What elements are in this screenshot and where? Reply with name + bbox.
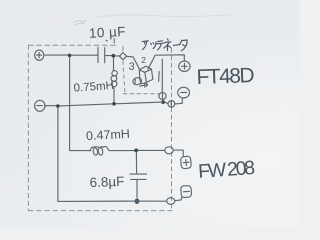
capacitor C2 6.8uF (shunt) [130, 152, 147, 197]
inductor L2 0.47mH (horizontal coil) [90, 147, 109, 156]
wire: to FW208 + terminal [173, 150, 183, 156]
wire: node B to diamond [115, 55, 119, 57]
svg-text:0.75mH: 0.75mH [73, 80, 114, 95]
node B (junction dot) [112, 54, 116, 58]
svg-text:10 µF: 10 µF [89, 24, 127, 41]
node G (bottom junction) [135, 198, 140, 204]
svg-text:0.47mH: 0.47mH [86, 127, 130, 143]
svg-text:FW 208: FW 208 [197, 157, 255, 183]
FW208 + terminal (square) [181, 156, 192, 169]
wire: node F to enclosure terminal [138, 149, 165, 151]
wire: node C to enclosure terminal [165, 102, 168, 103]
faint pencil smudge top-left [74, 15, 232, 25]
label 10uF [89, 24, 127, 41]
wire: node D down to bottom rail [57, 108, 59, 202]
enclosure exit terminal (woofer -) [167, 198, 175, 205]
wire: C1 to node B [105, 55, 111, 57]
FT48D - terminal [178, 87, 190, 98]
wire: node A down to woofer branch corner [69, 57, 71, 151]
wire: attenuator terminal 2 up to FT48D + [148, 55, 184, 69]
input terminal - [35, 100, 45, 111]
capacitor C1 10uF [98, 47, 105, 63]
node E (junction dot, coil to minus rail) [112, 102, 116, 106]
attenuator ATT (3D box with knob) [132, 66, 153, 87]
wire: diamond to attenuator terminal 3 [127, 56, 140, 70]
wire: - input to node D [44, 105, 56, 107]
svg-text:3: 3 [128, 61, 135, 73]
input terminal + [35, 50, 44, 60]
wire: to FW208 - terminal [175, 197, 182, 201]
wire: to FT48D - terminal [175, 98, 183, 104]
svg-text:6.8µF: 6.8µF [89, 174, 124, 190]
wire: node A to capacitor C1 [71, 54, 97, 56]
wire: corner to inductor L2 [70, 150, 91, 152]
wire: + input to node A [44, 54, 68, 56]
inner dashed enclosure (attenuator unit box) [123, 46, 159, 93]
bottom rail [58, 200, 167, 202]
inductor L1 0.75mH (vertical coil) [111, 57, 117, 102]
wire: L2 to node F [109, 150, 134, 152]
label terminal 1 [158, 72, 161, 82]
FW208 - terminal (square) [181, 185, 192, 197]
node D (junction dot) [56, 104, 60, 108]
node C (junction dot on minus rail) [161, 100, 165, 104]
enclosure exit terminal (woofer +) [165, 147, 173, 154]
svg-text:FT48D: FT48D [196, 64, 255, 89]
minus rail: node D to node C [60, 102, 163, 106]
attenuator unit exit terminal (circle) [159, 93, 166, 100]
FT48D + terminal [179, 61, 190, 71]
node A (junction dot) [68, 54, 72, 58]
outer dashed enclosure (crossover network box) [28, 45, 172, 210]
label attenuator (katakana) [142, 39, 187, 51]
node F (junction dot) [134, 149, 138, 153]
enclosure exit terminal (tweeter -) [168, 101, 175, 108]
svg-text:2: 2 [141, 55, 146, 65]
wire: attenuator terminal 1 down [161, 59, 163, 92]
diamond pass-through marker on attenuator box edge [119, 53, 126, 60]
